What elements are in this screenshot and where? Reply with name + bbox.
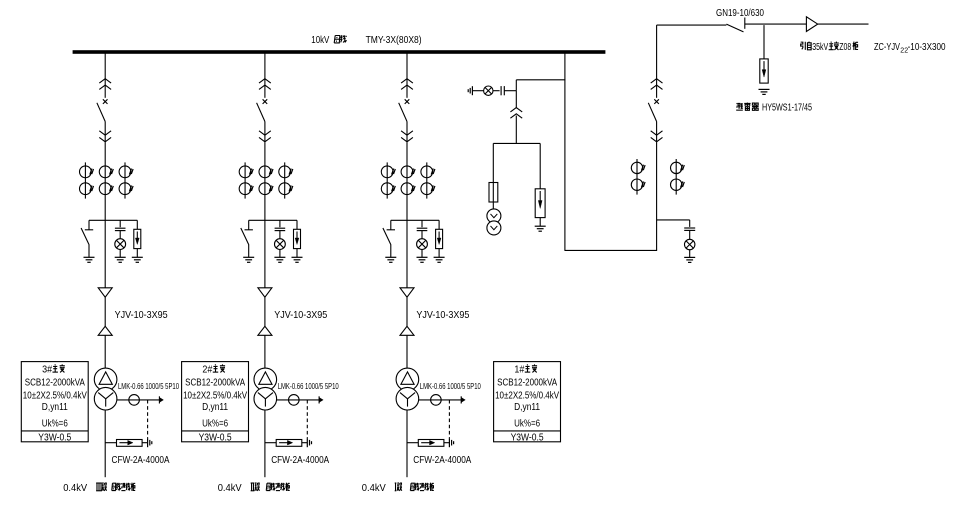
info box transformer 2# [182,362,249,442]
wire PT drop to tee [515,116,517,144]
wire cable section feeder 1 [104,297,106,326]
svg-text:Y3W-0.5: Y3W-0.5 [199,432,232,443]
svg-text:0.4kV: 0.4kV [362,483,386,494]
svg-text:Z08: Z08 [839,42,851,53]
drawout contact lower [99,131,111,135]
earthing switch feeder 1 [88,220,90,230]
surge arrester F2 PT [535,189,545,218]
drawout contact upper [259,79,271,83]
label incoming cable 引自35kV主变Z08柜 ZC-YJV22-10-3X300 [801,42,946,55]
ground of earthing switch feeder 1 [84,256,95,258]
label 0.4kV II section cabinet feeder 2 [218,483,290,494]
lamp of live-line indicator feeder 2 [279,231,281,239]
transformer T2 delta winding [254,368,277,391]
wire feeder 3 tap bar [391,219,439,221]
label 避雷器 HY5WS1-17/45 [736,102,812,113]
busway CFW feeder 2 [265,442,276,444]
svg-text:SCB12-2000kVA: SCB12-2000kVA [25,377,85,388]
wire below transformer 3# [104,410,106,477]
busway CFW feeder 3 [407,442,418,444]
current transformers TA3 (3x2) [381,162,435,198]
svg-text:SCB12-2000kVA: SCB12-2000kVA [497,377,557,388]
drawout contact lower [651,131,663,135]
lamp of live-line indicator feeder 1 [119,231,121,239]
label 0.4kV I section cabinet feeder 3 [362,483,434,494]
svg-text:2#: 2# [202,364,212,375]
metering arrow feeder 2 [318,396,320,403]
svg-text:0.4kV: 0.4kV [63,483,87,494]
ground of live-line indicator feeder 2 [274,256,285,258]
svg-text:LMK-0.66 1000/5 5P10: LMK-0.66 1000/5 5P10 [278,381,339,391]
wire LV metering tap feeder 3 [419,399,462,401]
cable incoming arrow 35kV [806,17,817,32]
ground (left) of PT live-line indicator [471,86,473,95]
CT LMK-0.66 feeder 3 [431,395,442,406]
busway end connector feeder 3 [448,438,450,447]
svg-text:Y3W-0.5: Y3W-0.5 [38,432,71,443]
surge arrester F0 HY5WS1-17/45 [760,59,768,83]
wire PT tee bar [493,142,540,144]
cable termination upper feeder 2 [258,288,272,297]
wire LV metering tap feeder 2 [277,399,320,401]
wire disconnect to cable arrow [745,23,807,25]
lamp of live-line indicator feeder 3 [421,231,423,239]
svg-text:LMK-0.66 1000/5 5P10: LMK-0.66 1000/5 5P10 [420,381,481,391]
CT LMK-0.66 feeder 1 [129,395,140,406]
capacitor of live-line indicator feeder 1 [119,220,121,227]
surge arrester feeder 2 [296,220,298,229]
svg-text:10±2X2.5%/0.4kV: 10±2X2.5%/0.4kV [495,391,559,402]
wire below transformer 2# [264,410,266,477]
circuit breaker (open, x-contact) [263,99,268,104]
cable termination upper feeder 1 [98,288,112,297]
wire to transformer 1# [406,335,408,368]
label 3#主变 [42,364,65,375]
ground of live-line indicator feeder 3 [417,256,428,258]
svg-text:-10-3X300: -10-3X300 [908,42,946,53]
svg-text:CFW-2A-4000A: CFW-2A-4000A [271,455,329,466]
busway CFW feeder 1 [105,442,116,444]
drawout contact PT [515,91,517,109]
capacitor of live-line indicator incoming [689,220,691,227]
dashed link feeder 1 [147,400,149,438]
wire PT left leg [492,143,494,182]
label 10kV busbar name [311,34,346,46]
ground of arrester feeder 1 [132,256,143,258]
ground of arrester feeder 2 [292,256,303,258]
svg-text:3#: 3# [42,364,52,375]
cable termination upper feeder 3 [400,288,414,297]
svg-text:D,yn11: D,yn11 [514,402,540,413]
wire feeder 1 tap bar [89,219,137,221]
busway end connector feeder 1 [147,438,149,447]
lamp of PT live-line indicator [484,86,493,95]
svg-text:LMK-0.66 1000/5 5P10: LMK-0.66 1000/5 5P10 [118,381,179,391]
svg-text:0.4kV: 0.4kV [218,483,242,494]
cable termination lower feeder 2 [258,326,272,335]
transformer T2 wye winding [254,387,277,410]
wire below breaker [656,122,658,143]
ground of arrester F2 [535,225,546,227]
capacitor of live-line indicator feeder 2 [279,220,281,227]
label 0.4kV III section cabinet feeder 1 [63,483,135,494]
surge arrester feeder 1 [136,220,138,229]
CT LMK-0.66 feeder 2 [289,395,300,406]
circuit breaker (open, x-contact) [654,99,659,104]
svg-text:1#: 1# [514,364,524,375]
drawout contact lower [259,131,271,135]
ground of live-line indicator feeder 1 [115,256,126,258]
svg-text:YJV-10-3X95: YJV-10-3X95 [115,310,168,321]
svg-text:Uk%=6: Uk%=6 [42,419,68,430]
wire to transformer 3# [104,335,106,368]
svg-text:10±2X2.5%/0.4kV: 10±2X2.5%/0.4kV [23,391,87,402]
wire incoming from disconnect [657,24,727,26]
svg-text:CFW-2A-4000A: CFW-2A-4000A [413,455,471,466]
svg-text:D,yn11: D,yn11 [42,402,68,413]
wire junction to arrester F0 [763,25,765,59]
transformer T1 delta winding [396,368,419,391]
earthing switch feeder 2 [248,220,250,230]
svg-text:ZC-YJV: ZC-YJV [874,42,900,53]
svg-text:10kV: 10kV [311,34,329,46]
svg-text:HY5WS1-17/45: HY5WS1-17/45 [762,102,812,113]
wire arrester F2 to ground [539,218,541,227]
label 1#主变 [514,364,537,375]
cable termination lower feeder 3 [400,326,414,335]
current transformers TA1 (3x2) [80,162,134,198]
wire PT riser [564,52,566,251]
busbar 10kV W1 [73,50,606,54]
wire LV metering tap feeder 1 [117,399,159,401]
dashed link feeder 3 [448,400,450,438]
drawout contact lower [401,131,413,135]
surge arrester feeder 3 [438,220,440,229]
metering arrow feeder 1 [158,396,160,403]
disconnect switch GN19-10/630 [726,24,743,32]
svg-text:10±2X2.5%/0.4kV: 10±2X2.5%/0.4kV [183,391,247,402]
voltage transformer TV winding 1 [487,209,501,223]
ground of arrester F0 [759,88,770,90]
wire below breaker [406,122,408,143]
current transformers TA0 (2x2) [631,159,684,195]
wire above breaker [264,52,266,98]
ground of earthing switch feeder 3 [385,256,396,258]
drawout contact upper [651,79,663,83]
fuse FU PT [489,183,498,203]
svg-text:Y3W-0.5: Y3W-0.5 [511,432,544,443]
transformer T3 delta winding [94,368,117,391]
capacitor of PT live-line indicator [500,86,502,95]
drawout contact upper [401,79,413,83]
svg-text:SCB12-2000kVA: SCB12-2000kVA [185,377,245,388]
svg-text:YJV-10-3X95: YJV-10-3X95 [274,310,327,321]
current transformers TA2 (3x2) [239,162,293,198]
wire cable section feeder 3 [406,297,408,326]
wire live-line indicator row PT [472,90,483,92]
svg-text:D,yn11: D,yn11 [202,402,228,413]
busway end connector feeder 2 [306,438,308,447]
dashed link feeder 2 [306,400,308,438]
svg-text:Uk%=6: Uk%=6 [202,419,228,430]
svg-text:TMY-3X(80X8): TMY-3X(80X8) [366,34,422,46]
svg-text:Uk%=6: Uk%=6 [514,419,540,430]
circuit breaker (open, x-contact) [103,99,108,104]
svg-text:CFW-2A-4000A: CFW-2A-4000A [112,455,170,466]
wire cable section feeder 2 [264,297,266,326]
svg-text:GN19-10/630: GN19-10/630 [716,8,764,19]
voltage transformer TV winding 2 [487,221,501,235]
ground of arrester feeder 3 [434,256,445,258]
wire incoming main drop [656,142,658,250]
circuit breaker (open, x-contact) [405,99,410,104]
drawout contact upper [99,79,111,83]
svg-text:YJV-10-3X95: YJV-10-3X95 [416,310,469,321]
wire above breaker [104,52,106,98]
lamp of live-line indicator incoming [689,230,691,239]
info box transformer 1# [494,362,561,442]
earthing switch feeder 3 [390,220,392,230]
wire feeder 1 main drop [104,142,106,288]
wire PT tap from riser [516,79,565,81]
wire below breaker [104,122,106,143]
wire feeder 2 tap bar [249,219,297,221]
svg-text:35kV: 35kV [812,42,828,53]
ground of earthing switch feeder 2 [243,256,254,258]
transformer T3 wye winding [94,387,117,410]
wire above breaker [406,52,408,98]
wire PT right leg [539,143,541,188]
metering arrow feeder 3 [460,396,462,403]
cable termination lower feeder 1 [98,326,112,335]
wire feeder 2 main drop [264,142,266,288]
info box transformer 3# [21,362,88,442]
wire tap to live-line indicator incoming [657,219,690,221]
capacitor of live-line indicator feeder 3 [421,220,423,227]
transformer T1 wye winding [396,387,419,410]
wire below transformer 1# [406,410,408,477]
ground of live-line indicator incoming [684,256,695,258]
wire feeder 3 main drop [406,142,408,288]
label 2#主变 [202,364,225,375]
wire below breaker [264,122,266,143]
wire to transformer 2# [264,335,266,368]
wire cable arrow tail [818,23,869,25]
wire link incoming to PT riser [565,249,657,251]
wire above breaker [656,25,658,98]
